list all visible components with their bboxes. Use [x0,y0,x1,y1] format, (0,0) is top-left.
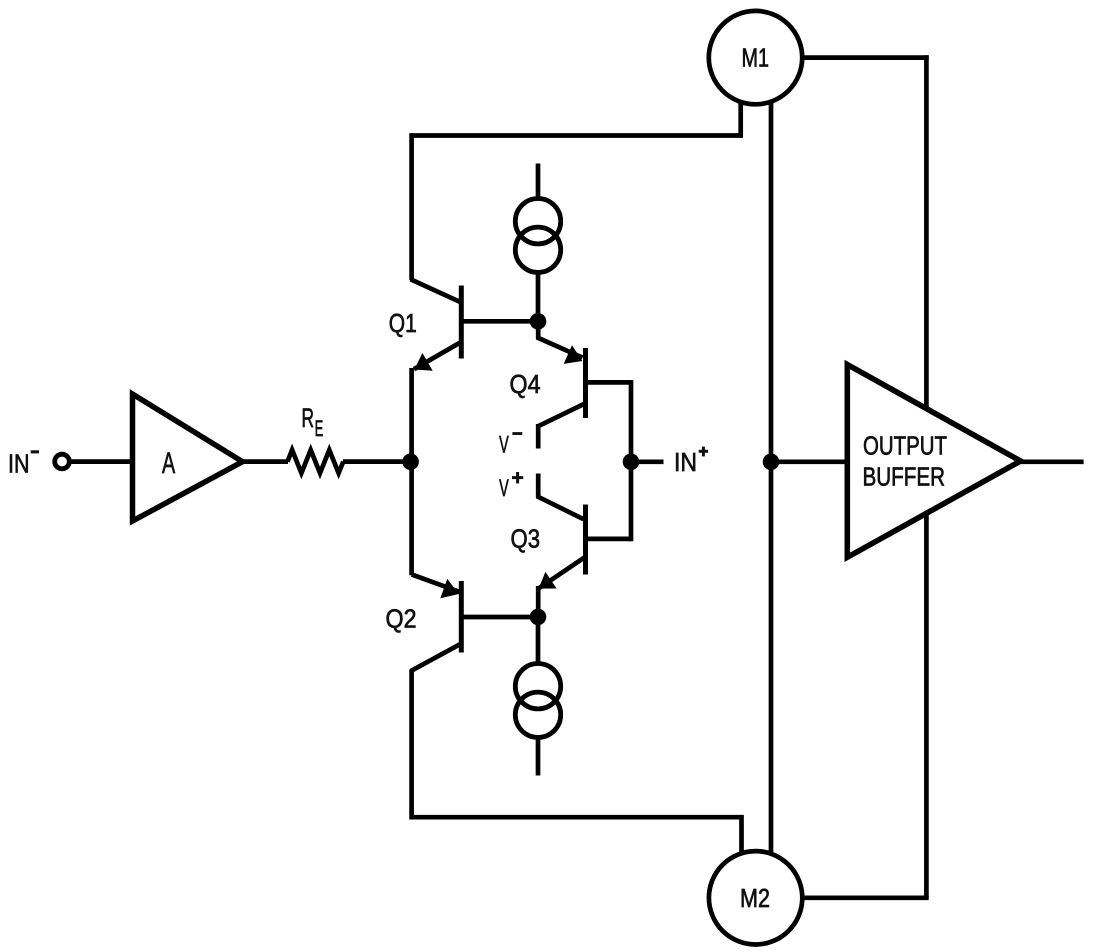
svg-text:R: R [302,403,315,433]
svg-text:V: V [499,475,509,502]
svg-text:IN: IN [8,449,30,479]
svg-text:Q2: Q2 [386,604,417,634]
svg-text:BUFFER: BUFFER [863,464,946,492]
svg-text:M2: M2 [740,883,770,913]
svg-text:Q1: Q1 [389,308,417,338]
svg-text:V: V [499,432,509,459]
svg-text:A: A [162,447,175,480]
svg-text:IN: IN [674,447,697,477]
svg-text:E: E [315,416,324,441]
svg-text:Q3: Q3 [511,524,541,554]
svg-text:Q4: Q4 [510,369,541,399]
svg-text:M1: M1 [742,42,770,72]
svg-text:OUTPUT: OUTPUT [863,433,947,461]
